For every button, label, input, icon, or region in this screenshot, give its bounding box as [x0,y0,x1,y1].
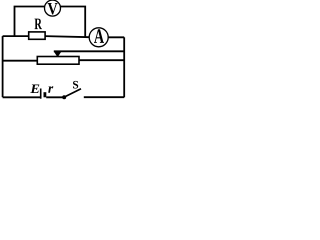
wire resistor to ammeter [45,36,90,37]
rheostat R2 box [37,57,79,65]
rheostat wiper arrow [54,52,62,58]
wire battery to switch [46,96,62,98]
wire top-right (V to right corner, down to node) [60,7,85,37]
battery short thick plate [44,92,47,97]
label S [73,81,78,89]
wire top-left (voltmeter branch left: vertical + top horizontal to V) [15,7,46,37]
wire rheostat wiper row [54,50,124,52]
voltmeter V1 [45,0,61,16]
wire ammeter to right vertical [108,36,124,38]
label r [48,86,53,92]
resistor R [29,19,45,40]
battery E,r : long plate [40,89,42,99]
wire rheostat row right [79,59,124,61]
wire resistor row left [3,35,29,37]
ammeter A1 [89,28,108,47]
wire battery row left [3,96,41,98]
switch S pivot dot [62,95,66,99]
switch S lever [64,89,81,98]
wire right vertical [123,37,125,97]
wire rheostat row left [3,60,38,62]
wire switch to right corner [84,96,124,98]
wire left vertical [2,36,4,97]
label E [30,85,39,94]
